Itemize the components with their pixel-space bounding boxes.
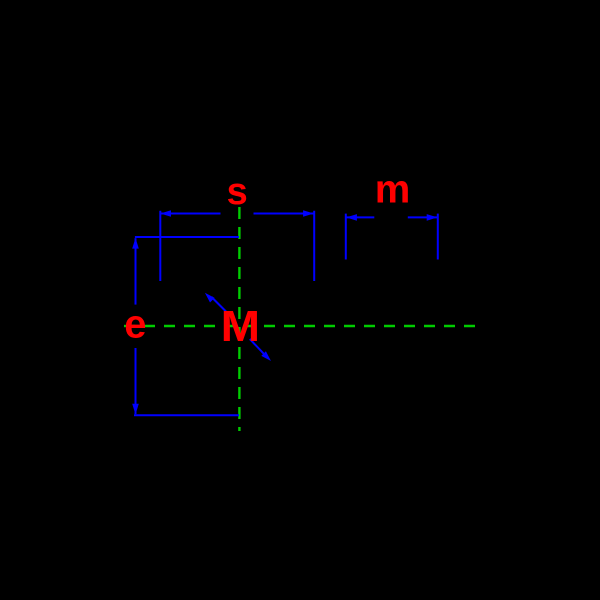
svg-text:M: M — [221, 302, 260, 351]
svg-text:e: e — [124, 303, 146, 347]
svg-text:m: m — [375, 168, 411, 212]
svg-text:s: s — [227, 171, 248, 213]
